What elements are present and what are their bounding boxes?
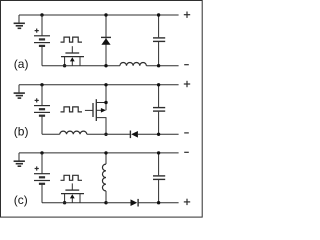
wire top rail (c) [19,152,179,154]
wire bottom rail left (b) [42,133,60,135]
label + output (c) [184,199,190,205]
wire top rail (b) [19,84,179,86]
wire bottom rail left (c) [42,202,106,204]
inductor L1 (a) [120,62,146,65]
capacitor C2 (b) [153,85,165,135]
label - output (c) [184,151,189,153]
label + battery (b) [35,98,39,102]
svg-text:(a): (a) [14,57,29,71]
diode D1 (a) [101,15,111,66]
inductor L2 (b) [60,131,87,134]
label + battery (a) [35,29,39,33]
junction mosfet top rail (b) [104,83,107,86]
junction mosfet source (a) [63,64,66,67]
diode D3 (c) [131,199,139,207]
mosfet Q1 (a) [61,46,84,65]
inductor L3 (c) [102,153,106,203]
junction mosfet source rail (b) [104,133,107,136]
battery V1 (a) [34,15,50,66]
ground (b) [14,85,25,98]
wire bottom rail right (b) [138,133,179,135]
figure border frame [1,1,203,218]
diode D2 (b) [130,131,138,139]
label + battery (c) [35,166,39,170]
capacitor C1 (a) [153,15,165,66]
junction diode bottom (a) [104,64,107,67]
capacitor C3 (c) [153,153,165,203]
label + output (a) [184,12,190,18]
junction inductor top (c) [104,151,107,154]
label - output (b) [184,132,189,134]
wire top rail (a) [19,14,179,16]
junction inductor bottom (c) [104,201,107,204]
mosfet Q3 (c) [61,183,84,202]
junction mosfet source (c) [63,201,66,204]
mosfet Q2 (b) [93,85,106,135]
junction battery top (b) [40,83,43,86]
gate drive squarewave (b) [61,107,83,112]
junction battery top (a) [40,13,43,16]
junction mosfet drain tee (b) [104,101,107,104]
junction capacitor top (a) [157,13,160,16]
wire bottom rail right (a) [146,65,178,67]
label + output (b) [184,81,190,87]
battery V2 (b) [34,85,50,135]
junction capacitor bottom (b) [157,133,160,136]
ground (a) [14,15,25,28]
junction battery top (c) [40,151,43,154]
junction capacitor bottom (c) [157,201,160,204]
wire bottom rail mid (b) [87,133,131,135]
wire bottom rail right (c) [138,202,179,204]
junction capacitor top (c) [157,151,160,154]
gate drive squarewave (a) [61,37,83,42]
svg-text:(c): (c) [14,193,28,207]
junction capacitor top (b) [157,83,160,86]
battery V3 (c) [34,153,50,203]
svg-text:(b): (b) [14,124,29,138]
wire bottom rail left (a) [42,65,120,67]
gate drive squarewave (c) [61,175,83,180]
ground (c) [14,153,25,166]
junction capacitor bottom (a) [157,64,160,67]
label - output (a) [184,64,189,66]
wire gate lead (b) [85,109,93,111]
wire bottom rail mid (c) [106,202,131,204]
junction diode top (a) [104,13,107,16]
